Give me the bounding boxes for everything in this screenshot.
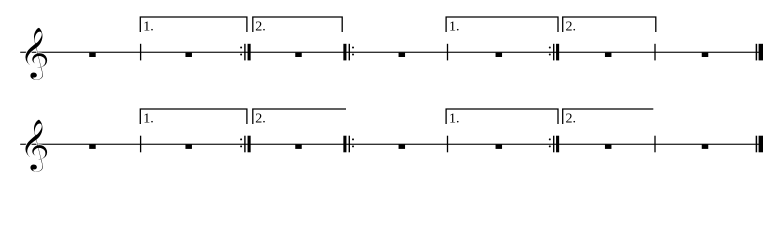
whole rest S1.7: [702, 53, 709, 57]
repeat-start barline S1 r2 thin: [349, 44, 350, 61]
repeat-end barline S1 r3 thin: [553, 44, 554, 61]
final barline S1 thick: [759, 44, 763, 61]
final barline S2 thick: [759, 136, 763, 153]
whole rest S1.3: [295, 53, 302, 57]
volta bracket 1 (first ending) S2 group1: [140, 109, 247, 124]
volta bracket 2 (second ending) S2 group2: [563, 109, 654, 124]
volta bracket 1 (first ending) S1 group1: [140, 17, 247, 32]
repeat-end barline S1 r1 thin: [244, 44, 245, 61]
whole rest S1.1: [89, 53, 96, 57]
whole rest S2.5: [496, 145, 503, 149]
repeat-end barline S1 r3 thick: [556, 44, 559, 61]
svg-text:1.: 1.: [449, 20, 460, 35]
repeat-end barline S2 r1 dots: [240, 138, 242, 140]
wire staff line S1: [20, 52, 763, 53]
final barline S2 thin: [756, 136, 758, 153]
barline S1 b3: [654, 44, 655, 61]
repeat-end barline S1 r3 dots: [549, 47, 551, 49]
repeat-end barline S2 r3 thick: [556, 136, 559, 153]
svg-text:1.: 1.: [143, 112, 154, 127]
volta bracket 1 (first ending) S1 group2: [446, 17, 558, 32]
repeat-start barline S1 r2 dots: [352, 47, 354, 49]
whole rest S1.2: [185, 53, 192, 57]
whole rest S1.4: [399, 53, 406, 57]
barline S2 b2: [447, 136, 448, 153]
repeat-end barline S1 r1 dots: [240, 47, 242, 49]
barline S2 b1: [140, 136, 141, 153]
whole rest S1.5: [496, 53, 503, 57]
repeat-end barline S1 r1 thick: [248, 44, 251, 61]
whole rest S2.6: [605, 145, 612, 149]
svg-text:2.: 2.: [566, 20, 577, 35]
final barline S1 thin: [756, 44, 758, 61]
repeat-end barline S2 r3 dots: [549, 138, 551, 140]
repeat-start barline S1 r2 thick: [343, 44, 346, 61]
repeat-end barline S2 r3 thin: [553, 136, 554, 153]
repeat-start barline S2 r2 thick: [343, 136, 346, 153]
svg-text:1.: 1.: [449, 112, 460, 127]
volta bracket 1 (first ending) S2 group2: [446, 109, 558, 124]
svg-text:2.: 2.: [255, 112, 265, 127]
treble clef S1: [25, 27, 47, 80]
repeat-end barline S2 r1 thick: [248, 136, 251, 153]
svg-text:2.: 2.: [566, 112, 577, 127]
barline S1 b2: [447, 44, 448, 61]
barline S2 b3: [654, 136, 655, 153]
svg-text:2.: 2.: [255, 20, 265, 35]
whole rest S2.3: [295, 145, 302, 149]
volta bracket 2 (second ending) S1 group1: [253, 17, 342, 32]
svg-text:1.: 1.: [143, 20, 154, 35]
whole rest S1.6: [605, 53, 612, 57]
treble clef S2: [25, 119, 47, 172]
whole rest S2.2: [185, 145, 192, 149]
repeat-end barline S2 r1 thin: [244, 136, 245, 153]
repeat-start barline S2 r2 thin: [349, 136, 350, 153]
whole rest S2.4: [399, 145, 406, 149]
volta bracket 2 (second ending) S2 group1: [253, 109, 346, 124]
wire staff line S2: [20, 144, 763, 145]
whole rest S2.1: [89, 145, 96, 149]
repeat-start barline S2 r2 dots: [352, 138, 354, 140]
whole rest S2.7: [702, 145, 709, 149]
volta bracket 2 (second ending) S1 group2: [563, 17, 656, 32]
barline S1 b1: [140, 44, 141, 61]
